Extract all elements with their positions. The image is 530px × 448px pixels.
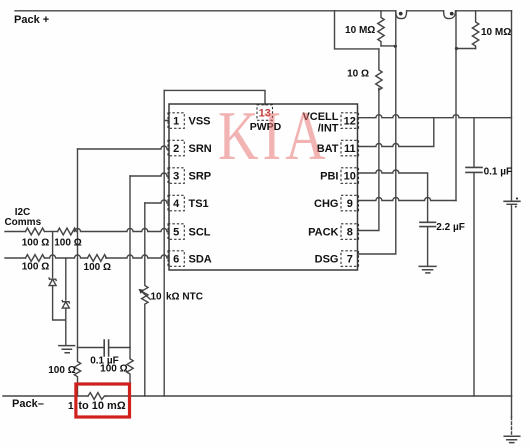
ground bottom-right [504,436,520,442]
svg-text:0.1 µF: 0.1 µF [90,355,119,366]
svg-text:12: 12 [344,116,356,128]
battery polarity marks [516,197,518,199]
wire diode 1 branch from SCL junction [52,232,54,278]
svg-text:100 Ω: 100 Ω [22,238,49,249]
wire Pack- bottom rail (left of sense resistor) [3,395,88,397]
thermistor arrow [140,290,151,300]
wire SRP from pin 3 with hop [130,173,168,176]
pin box 4 [168,195,184,211]
diode D1 zener to ground [49,278,56,280]
wire 10Mohm#2 bottom to CHG gate vertical [456,48,476,50]
wire stem to system ground (part solid, part dotted) [511,396,513,417]
diode D2 zener to ground [62,301,69,303]
resistor 100 ohm SCL second [58,228,77,235]
pin box 7 [341,251,359,266]
wire 0.1uF right bottom down to Pack- rail [473,173,475,396]
resistor 100 ohm SRP lower [127,348,133,397]
capacitor 0.1uF right: tap from VCELL row [473,118,475,167]
pin box 8 [341,224,359,240]
capacitor 0.1uF sense filter wire [78,347,131,349]
svg-text:PACK: PACK [308,227,338,239]
wire BAT row pin 11 with hops, riser to VCELL row [359,118,434,147]
highlight red box around sense resistor [76,384,130,417]
capacitor 0.1 uF right plates [466,167,482,172]
svg-text:kΩ NTC: kΩ NTC [166,291,203,302]
svg-text:0.1 µF: 0.1 µF [484,166,513,177]
pin box 2 [168,140,184,156]
wire SRP vertical down [129,176,131,348]
wire SDA row mid with hop over diode1 branch [45,255,88,258]
svg-text:10: 10 [151,291,163,302]
pin box 5 [168,224,184,240]
wire SCL row to pin 5 with hops [75,229,169,232]
wire I2C SDA row with series resistors and hops [5,257,26,259]
svg-text:VSS: VSS [189,116,211,128]
wire VCELL/INT row pin 12 with hops [359,115,512,118]
svg-text:Comms: Comms [4,217,41,228]
wire Pack- bottom rail (right of sense resistor) [107,395,512,397]
wire D2 anode down to ground [65,308,67,345]
pin box 6 [168,251,184,266]
node dot 10Mohm#2/CHG junction [455,47,458,50]
resistor 100 ohm SDA second [88,255,107,262]
wire VSS vertical and hook to PWPD [164,90,168,396]
wire SRN from pin 2 with hop [78,146,169,149]
svg-text:10: 10 [344,171,356,183]
wire VSS hook over to pin 13 PWPD [164,90,265,104]
svg-text:10 Ω: 10 Ω [347,69,369,80]
wire 10Mohm#1 bottom to DSG gate vertical [381,45,396,47]
resistor 10 Mohm #2 [472,11,478,49]
wire SCL row mid segment [45,231,58,233]
resistor sense 1-10 mOhm (zigzag in rail) [88,393,107,400]
svg-text:3: 3 [173,171,179,183]
node dot at dip 1 [399,12,403,16]
ground for 2.2uF [419,266,436,273]
svg-text:1: 1 [68,401,74,412]
svg-text:7: 7 [347,254,353,266]
svg-text:6: 6 [173,254,179,266]
svg-text:5: 5 [173,227,179,239]
pin box 13 [257,105,273,121]
wire hop dip 1 (FET body) [396,11,407,19]
pin box 10 [341,168,359,184]
wire I2C SCL row with series resistors and hops [5,231,26,233]
svg-text:10 MΩ: 10 MΩ [481,27,511,38]
battery cell plates [504,200,520,202]
pin box 12 [341,113,359,129]
svg-text:Pack +: Pack + [14,14,49,26]
svg-text:10 MΩ: 10 MΩ [345,25,375,36]
svg-text:2.2 µF: 2.2 µF [436,222,465,233]
ground for I2C zener diodes [59,346,75,353]
resistor 100 ohm SRN lower [74,348,80,397]
wire D1 anode to ground node [53,286,66,320]
svg-text:2: 2 [173,143,179,155]
resistor 100 ohm SCL first [26,228,45,235]
pin box 11 [341,140,359,156]
svg-text:4: 4 [173,198,180,210]
svg-text:100 Ω: 100 Ω [54,238,81,249]
svg-text:100 Ω: 100 Ω [48,365,75,376]
watermark KIA [218,107,338,167]
capacitor 2.2 uF plates [420,222,436,226]
node dot 10Mohm#1/DSG junction [394,45,397,48]
wire 2.2uF bottom to ground [427,227,429,265]
wire PBI row pin 10 with hops, drop to 2.2uF [359,170,428,222]
wire Pack+ rail right segment [456,10,512,12]
wire hop dip 2 (FET body) [444,11,456,19]
wire PACK vertical x=378.9 down to pin 8 row [359,89,379,231]
svg-text:9: 9 [347,198,353,210]
wire battery cell bottom down to Pack- rail [511,205,513,396]
wire battery cell stack right edge top [511,11,513,200]
wire Pack+ rail middle segment [407,10,444,12]
svg-text:SCL: SCL [189,227,211,239]
svg-text:SDA: SDA [189,254,212,266]
pin box 1 [168,113,184,129]
resistor 10 ohm [376,49,382,90]
IC body outline [169,104,358,270]
svg-text:1: 1 [173,116,179,128]
node dot at dip 2 [450,12,454,16]
capacitor 0.1uF sense filter plates [104,340,108,356]
svg-text:11: 11 [344,143,356,155]
svg-text:100 Ω: 100 Ω [22,261,49,272]
svg-text:CHG: CHG [314,198,338,210]
wire CHG gate vertical x=456 down to pin 9 row [455,11,457,201]
wire Pack+ top rail left segment [15,10,396,12]
svg-text:to 10 mΩ: to 10 mΩ [78,400,126,412]
resistor 10 Mohm #1 (zigzag) [378,11,384,46]
wire SRN vertical down [77,149,79,348]
svg-text:TS1: TS1 [189,198,209,210]
thermistor 10k NTC vertical [142,203,148,396]
svg-text:8: 8 [347,227,353,239]
wire SDA row to pin 6 with hops [106,255,168,258]
wire diode 2 branch from SDA junction [65,258,67,300]
resistor 100 ohm SDA first [26,255,45,262]
svg-text:100 Ω: 100 Ω [84,262,111,273]
pin box 3 [168,168,184,184]
wire DSG gate vertical x=395.8 down to pin 7 row [359,11,396,254]
wire TS1 from pin 4 with hop [145,200,168,203]
svg-text:SRN: SRN [189,143,212,155]
svg-text:Pack–: Pack– [12,398,44,410]
wire CHG row pin 9 with hops [359,198,457,201]
svg-text:DSG: DSG [315,254,339,266]
wire from rail down at x=334.5 to 10-ohm branch [335,11,379,49]
svg-text:SRP: SRP [189,171,212,183]
pin box 9 [341,195,359,211]
